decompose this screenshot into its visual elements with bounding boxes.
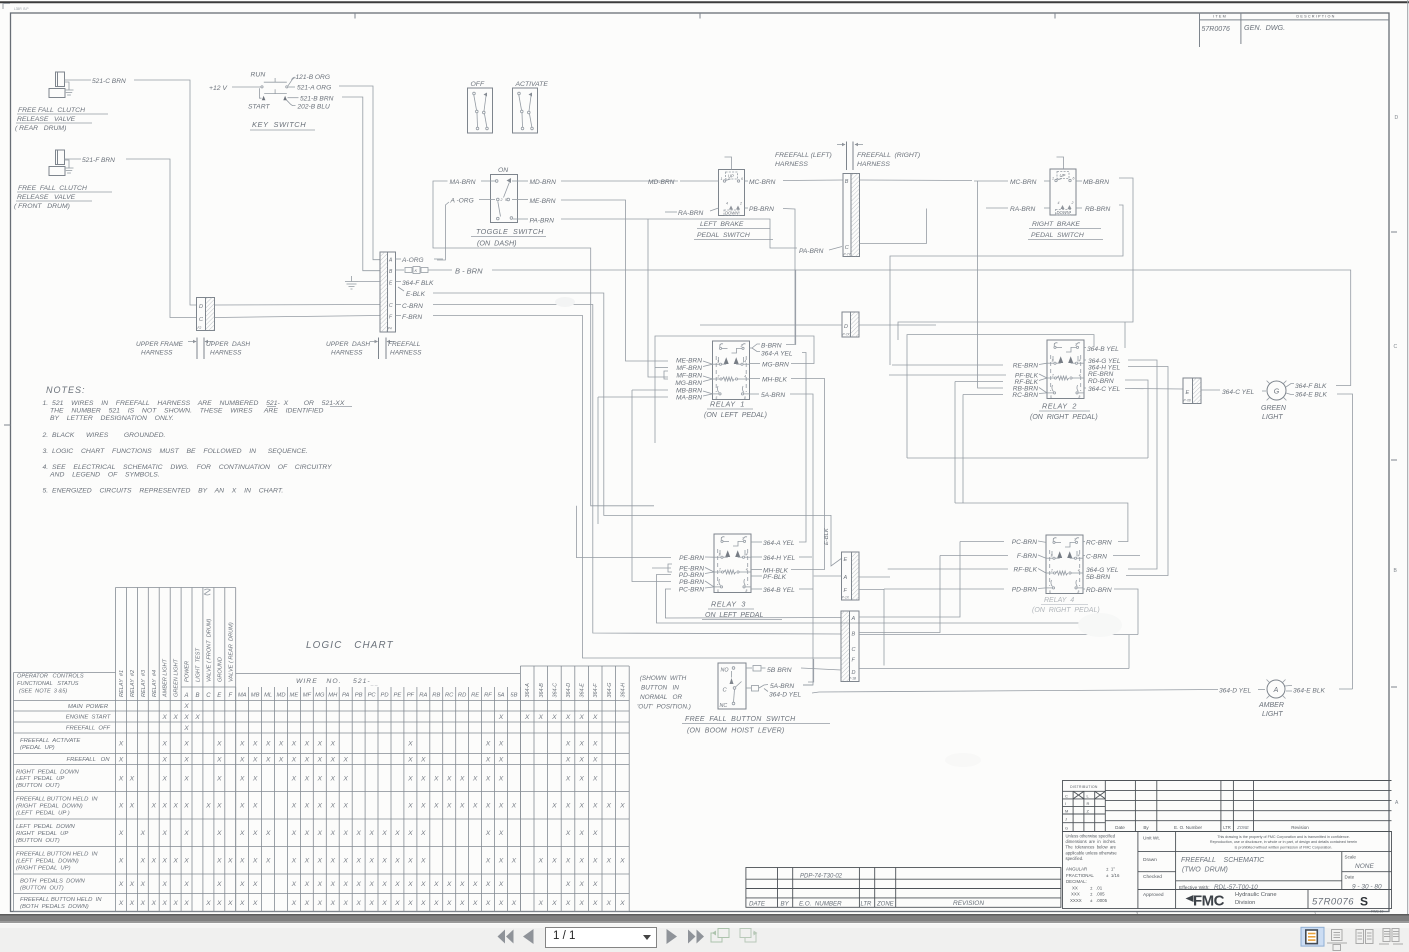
svg-text:X: X — [183, 775, 189, 782]
svg-text:X: X — [446, 881, 452, 888]
svg-text:3: 3 — [719, 553, 721, 557]
svg-text:ZONE: ZONE — [1236, 825, 1249, 830]
svg-text:5A: 5A — [497, 693, 504, 699]
svg-text:RIGHT PEDAL DOWN: RIGHT PEDAL DOWN — [16, 769, 79, 775]
svg-text:X: X — [239, 803, 245, 810]
svg-text:A -ORG: A -ORG — [450, 198, 474, 205]
svg-text:(ON RIGHT PEDAL): (ON RIGHT PEDAL) — [1030, 414, 1098, 421]
svg-text:X: X — [381, 881, 387, 888]
svg-text:3: 3 — [742, 537, 744, 541]
svg-text:LEFT PEDAL UP: LEFT PEDAL UP — [16, 776, 64, 782]
svg-text:X: X — [485, 741, 491, 748]
svg-text:NOTES:: NOTES: — [46, 385, 86, 395]
svg-text:X: X — [342, 756, 348, 763]
svg-text:LTR: LTR — [1223, 825, 1231, 830]
svg-text:(BUTTON OUT): (BUTTON OUT) — [16, 838, 60, 844]
svg-text:AND LEGEND OF SYMBOLS.: AND LEGEND OF SYMBOLS. — [49, 472, 160, 479]
svg-text:X: X — [368, 900, 374, 907]
svg-text:X: X — [252, 756, 258, 763]
svg-text:LIGHT TEST: LIGHT TEST — [196, 648, 202, 682]
svg-text:X: X — [578, 900, 584, 907]
svg-text:X: X — [161, 881, 167, 888]
svg-text:P4: P4 — [388, 327, 392, 331]
svg-text:X: X — [317, 741, 323, 748]
svg-text:X: X — [151, 803, 157, 810]
svg-text:X: X — [330, 900, 336, 907]
svg-text:5B BRN: 5B BRN — [767, 667, 792, 674]
svg-text:RF: RF — [484, 693, 492, 699]
svg-text:D: D — [199, 304, 203, 310]
svg-text:X: X — [342, 900, 348, 907]
svg-text:C-BRN: C-BRN — [402, 303, 423, 310]
svg-text:RA-BRN: RA-BRN — [1010, 206, 1036, 213]
svg-text:X: X — [592, 830, 598, 837]
svg-text:X: X — [304, 741, 310, 748]
svg-text:X: X — [511, 803, 517, 810]
svg-text:X: X — [151, 858, 157, 865]
svg-text:Division: Division — [1235, 900, 1255, 906]
svg-text:X: X — [183, 881, 189, 888]
svg-text:J: J — [1065, 817, 1067, 822]
svg-text:4: 4 — [1078, 569, 1080, 573]
svg-text:LIGHT: LIGHT — [1262, 711, 1283, 718]
svg-text:X: X — [129, 881, 135, 888]
svg-text:X: X — [472, 803, 478, 810]
svg-text:364-A YEL: 364-A YEL — [761, 351, 793, 358]
svg-text:DOWN: DOWN — [725, 211, 739, 216]
svg-text:X: X — [433, 803, 439, 810]
svg-text:F: F — [228, 693, 232, 699]
svg-text:X: X — [394, 830, 400, 837]
svg-text:MG-BRN: MG-BRN — [675, 380, 702, 387]
svg-text:8: 8 — [746, 589, 748, 593]
svg-text:X: X — [216, 900, 222, 907]
svg-text:364-A: 364-A — [525, 683, 531, 698]
svg-text:is prohibited without written: is prohibited without written permission… — [1235, 845, 1333, 849]
svg-text:MH-BLK: MH-BLK — [762, 377, 788, 384]
svg-text:RUN: RUN — [251, 72, 266, 79]
svg-text:X: X — [129, 803, 135, 810]
svg-text:X: X — [183, 803, 189, 810]
svg-text:C: C — [1394, 344, 1398, 350]
svg-text:± .005: ± .005 — [1090, 892, 1105, 897]
svg-text:RELAY #4: RELAY #4 — [152, 670, 158, 697]
svg-text:X: X — [420, 775, 426, 782]
svg-text:364-A YEL: 364-A YEL — [763, 540, 795, 547]
svg-text:2: 2 — [739, 202, 742, 206]
svg-text:3: 3 — [717, 360, 719, 364]
svg-text:X: X — [592, 803, 598, 810]
svg-text:57R0076: 57R0076 — [1202, 26, 1231, 33]
svg-text:X: X — [239, 775, 245, 782]
svg-text:applicable unless otherwise: applicable unless otherwise — [1066, 850, 1118, 855]
svg-text:A: A — [388, 258, 393, 264]
svg-text:RELAY 4: RELAY 4 — [1044, 597, 1074, 604]
svg-text:X: X — [183, 703, 189, 710]
svg-text:X: X — [172, 803, 178, 810]
svg-text:X: X — [407, 741, 413, 748]
svg-text:ON: ON — [498, 167, 508, 174]
svg-text:X: X — [216, 741, 222, 748]
svg-text:X: X — [459, 881, 465, 888]
svg-text:F-BRN: F-BRN — [1017, 553, 1037, 560]
svg-text:X: X — [606, 900, 612, 907]
svg-text:X: X — [498, 714, 504, 721]
svg-text:( FRONT DRUM): ( FRONT DRUM) — [14, 203, 70, 210]
svg-text:X: X — [592, 741, 598, 748]
svg-text:X: X — [252, 775, 258, 782]
svg-text:RELAY #1: RELAY #1 — [119, 670, 125, 697]
svg-text:X: X — [485, 900, 491, 907]
svg-text:PF-BLK: PF-BLK — [763, 574, 787, 581]
svg-text:X: X — [342, 858, 348, 865]
svg-text:M: M — [1065, 808, 1068, 813]
svg-text:(ON RIGHT PEDAL): (ON RIGHT PEDAL) — [1032, 607, 1100, 614]
svg-text:2: 2 — [500, 198, 503, 202]
svg-text:MA: MA — [238, 693, 247, 699]
svg-text:LOGIC CHART: LOGIC CHART — [306, 640, 394, 651]
svg-text:X: X — [565, 775, 571, 782]
svg-text:5: 5 — [1050, 395, 1052, 399]
svg-text:C: C — [389, 303, 393, 309]
svg-text:Revision: Revision — [1291, 825, 1309, 830]
svg-text:X: X — [304, 803, 310, 810]
svg-text:FREE FALL BUTTON SWITCH: FREE FALL BUTTON SWITCH — [685, 716, 796, 723]
svg-text:AMBER: AMBER — [1258, 702, 1284, 709]
svg-text:4: 4 — [726, 202, 728, 206]
svg-text:RB-BRN: RB-BRN — [1085, 206, 1111, 213]
svg-text:X: X — [140, 900, 146, 907]
svg-text:XX: XX — [1072, 886, 1078, 891]
svg-text:X: X — [420, 858, 426, 865]
svg-text:X: X — [592, 714, 598, 721]
svg-text:FREEFALL BUTTON HELD IN: FREEFALL BUTTON HELD IN — [16, 797, 98, 803]
svg-text:X: X — [407, 830, 413, 837]
svg-text:MA-BRN: MA-BRN — [676, 395, 702, 402]
svg-text:5A-BRN: 5A-BRN — [770, 683, 794, 690]
svg-text:± .01: ± .01 — [1090, 886, 1103, 891]
svg-text:X: X — [485, 756, 491, 763]
svg-text:FMC: FMC — [1193, 893, 1225, 910]
svg-text:X: X — [291, 741, 297, 748]
svg-text:(LEFT PEDAL DOWN): (LEFT PEDAL DOWN) — [16, 859, 79, 865]
svg-text:HARNESS: HARNESS — [775, 161, 808, 168]
svg-text:RE-BRN: RE-BRN — [1088, 371, 1114, 378]
svg-text:PD-BRN: PD-BRN — [1012, 587, 1038, 594]
svg-text:X: X — [140, 858, 146, 865]
svg-text:X: X — [216, 858, 222, 865]
svg-text:X: X — [140, 881, 146, 888]
svg-text:5B: 5B — [510, 693, 517, 699]
svg-text:MH: MH — [328, 693, 338, 699]
svg-text:X: X — [183, 714, 189, 721]
svg-text:RDL-57-T00-10: RDL-57-T00-10 — [1214, 884, 1258, 891]
svg-text:364-B YEL: 364-B YEL — [1087, 346, 1119, 353]
svg-text:X: X — [291, 775, 297, 782]
svg-text:X: X — [205, 803, 211, 810]
svg-text:OPERATOR CONTROLS: OPERATOR CONTROLS — [17, 674, 84, 680]
svg-text:NO: NO — [721, 668, 729, 674]
svg-text:X: X — [342, 803, 348, 810]
svg-text:X: X — [420, 830, 426, 837]
svg-text:1: 1 — [719, 344, 721, 348]
svg-text:RIGHT BRAKE: RIGHT BRAKE — [1032, 221, 1080, 228]
svg-text:This drawing is the property o: This drawing is the property of FMC Corp… — [1217, 835, 1350, 839]
svg-text:FRACTIONAL: FRACTIONAL — [1066, 873, 1094, 878]
svg-text:X: X — [472, 775, 478, 782]
svg-text:X: X — [472, 881, 478, 888]
svg-text:X: X — [252, 741, 258, 748]
svg-text:5B-BRN: 5B-BRN — [1086, 574, 1110, 581]
svg-text:UP: UP — [728, 174, 734, 179]
svg-text:LEFT PEDAL DOWN: LEFT PEDAL DOWN — [16, 824, 76, 830]
svg-text:X: X — [183, 741, 189, 748]
svg-text:X: X — [578, 803, 584, 810]
svg-text:_ _: _ _ — [370, 681, 378, 687]
svg-text:PA-BRN: PA-BRN — [530, 218, 555, 225]
svg-text:X: X — [291, 756, 297, 763]
svg-text:3: 3 — [1052, 359, 1054, 363]
svg-text:RE: RE — [471, 693, 479, 699]
svg-text:4: 4 — [746, 553, 748, 557]
svg-text:LIGHT: LIGHT — [1262, 414, 1283, 421]
svg-text:± 1°: ± 1° — [1106, 867, 1115, 872]
svg-text:ME-BRN: ME-BRN — [676, 358, 702, 365]
svg-text:X: X — [291, 900, 297, 907]
svg-text:X: X — [216, 881, 222, 888]
svg-text:X: X — [592, 881, 598, 888]
svg-text:4: 4 — [744, 360, 746, 364]
svg-text:X: X — [565, 741, 571, 748]
svg-text:C: C — [206, 693, 211, 699]
svg-text:FREEFALL: FREEFALL — [388, 341, 421, 348]
svg-text:5: 5 — [1049, 590, 1051, 594]
svg-text:A: A — [843, 575, 848, 581]
svg-text:X: X — [407, 881, 413, 888]
svg-text:B: B — [845, 179, 849, 185]
svg-text:X: X — [129, 775, 135, 782]
svg-text:X: X — [342, 830, 348, 837]
svg-text:FREEFALL ON: FREEFALL ON — [67, 757, 111, 763]
svg-text:364-D YEL: 364-D YEL — [1219, 688, 1251, 695]
svg-text:X: X — [578, 881, 584, 888]
svg-text:X: X — [498, 858, 504, 865]
svg-text:X: X — [407, 775, 413, 782]
svg-text:HARNESS: HARNESS — [390, 350, 422, 357]
svg-text:X: X — [485, 881, 491, 888]
svg-text:X: X — [619, 900, 625, 907]
svg-text:± 1/16: ± 1/16 — [1106, 873, 1120, 878]
svg-text:B: B — [852, 632, 856, 638]
svg-text:NC: NC — [720, 703, 728, 709]
svg-text:X: X — [118, 858, 124, 865]
svg-text:R: R — [1087, 801, 1090, 806]
svg-text:MAIN POWER: MAIN POWER — [68, 704, 109, 710]
svg-text:X: X — [118, 900, 124, 907]
svg-text:X: X — [381, 858, 387, 865]
svg-text:B-BRN: B-BRN — [761, 343, 782, 350]
svg-text:X: X — [578, 714, 584, 721]
svg-text:MD: MD — [276, 693, 285, 699]
svg-text:X: X — [140, 830, 146, 837]
svg-text:DOWN: DOWN — [1057, 210, 1071, 215]
svg-text:GREEN LIGHT: GREEN LIGHT — [174, 658, 180, 697]
svg-text:X: X — [183, 725, 189, 732]
svg-text:Unless otherwise specified: Unless otherwise specified — [1066, 834, 1116, 839]
svg-text:D: D — [844, 324, 848, 330]
svg-text:X: X — [239, 756, 245, 763]
svg-text:X: X — [551, 900, 557, 907]
svg-text:364-D: 364-D — [566, 683, 572, 698]
svg-text:X: X — [407, 803, 413, 810]
svg-text:X: X — [407, 900, 413, 907]
svg-text:PB-BRN: PB-BRN — [679, 579, 704, 586]
svg-text:RELAY 3: RELAY 3 — [711, 600, 746, 609]
svg-text:X: X — [291, 830, 297, 837]
svg-text:G: G — [1274, 389, 1280, 396]
svg-text:2: 2 — [1051, 374, 1054, 378]
svg-text:XXXX: XXXX — [1070, 898, 1082, 903]
svg-text:A: A — [183, 693, 188, 699]
svg-text:2. BLACK WIRES GROUNDED.: 2. BLACK WIRES GROUNDED. — [42, 432, 166, 439]
svg-text:4: 4 — [744, 375, 746, 379]
svg-text:NORMAL OR: NORMAL OR — [640, 694, 683, 701]
svg-text:FREEFALL OFF: FREEFALL OFF — [66, 726, 111, 732]
svg-text:5A-BRN: 5A-BRN — [761, 392, 785, 399]
svg-text:X: X — [420, 900, 426, 907]
svg-text:X: X — [239, 741, 245, 748]
svg-text:4. SEE ELECTRICAL SCHEMATIC: 4. SEE ELECTRICAL SCHEMATIC DWG. FOR CON… — [43, 464, 333, 471]
svg-text:X: X — [592, 900, 598, 907]
svg-text:X: X — [459, 775, 465, 782]
svg-text:PC-BRN: PC-BRN — [679, 587, 705, 594]
svg-text:X: X — [538, 714, 544, 721]
svg-text:RD-BRN: RD-BRN — [1086, 587, 1112, 594]
svg-text:X: X — [578, 858, 584, 865]
svg-text:X: X — [578, 830, 584, 837]
svg-text:5: 5 — [505, 198, 507, 202]
svg-text:X: X — [239, 900, 245, 907]
svg-text:X: X — [498, 775, 504, 782]
svg-text:P-1X: P-1X — [842, 596, 850, 600]
svg-text:X: X — [118, 756, 124, 763]
svg-text:X: X — [342, 881, 348, 888]
svg-text:Effective With:: Effective With: — [1179, 885, 1210, 891]
svg-text:X: X — [355, 900, 361, 907]
svg-text:X: X — [161, 741, 167, 748]
svg-text:RE-BRN: RE-BRN — [1013, 363, 1039, 370]
svg-text:X: X — [252, 900, 258, 907]
svg-text:364-H YEL: 364-H YEL — [763, 555, 795, 562]
svg-text:1: 1 — [721, 537, 723, 541]
svg-text:E-BLK: E-BLK — [406, 291, 426, 298]
svg-text:D: D — [1395, 115, 1399, 121]
svg-text:E: E — [844, 557, 848, 563]
svg-text:MF: MF — [303, 693, 312, 699]
svg-text:X: X — [433, 881, 439, 888]
svg-text:X: X — [216, 775, 222, 782]
svg-text:X: X — [330, 775, 336, 782]
svg-text:FREE FALL CLUTCH: FREE FALL CLUTCH — [18, 185, 87, 192]
svg-text:Checked: Checked — [1143, 874, 1162, 880]
svg-text:X: X — [498, 741, 504, 748]
svg-text:LTR: LTR — [861, 902, 873, 908]
svg-text:364-B: 364-B — [539, 683, 545, 698]
svg-text:RC: RC — [445, 693, 454, 699]
svg-text:P-7Y: P-7Y — [844, 253, 852, 257]
svg-text:57R0076: 57R0076 — [1312, 897, 1354, 908]
svg-text:B - BRN: B - BRN — [455, 267, 483, 276]
svg-text:G: G — [1065, 825, 1068, 830]
svg-text:ANGULAR: ANGULAR — [1066, 867, 1087, 872]
svg-text:3: 3 — [741, 344, 743, 348]
svg-text:X: X — [420, 881, 426, 888]
svg-text:X: X — [278, 756, 284, 763]
svg-text:Unit Wt.: Unit Wt. — [1143, 836, 1160, 842]
svg-text:X: X — [161, 900, 167, 907]
svg-text:(RIGHT PEDAL DOWN): (RIGHT PEDAL DOWN) — [16, 804, 83, 810]
svg-text:PC-BRN: PC-BRN — [1012, 539, 1038, 546]
svg-text:GROUND: GROUND — [217, 657, 223, 682]
svg-text:X: X — [498, 756, 504, 763]
svg-text:521-B BRN: 521-B BRN — [300, 96, 334, 103]
svg-text:(BUTTON OUT): (BUTTON OUT) — [16, 783, 60, 789]
svg-text:X: X — [118, 803, 124, 810]
svg-text:FREEFALL (RIGHT): FREEFALL (RIGHT) — [857, 152, 920, 159]
svg-text:X: X — [485, 830, 491, 837]
svg-text:C-BRN: C-BRN — [1086, 554, 1107, 561]
svg-text:X: X — [291, 803, 297, 810]
svg-text:X: X — [216, 830, 222, 837]
svg-text:specified.: specified. — [1066, 856, 1084, 861]
svg-text:X: X — [524, 714, 530, 721]
svg-text:4: 4 — [1079, 374, 1081, 378]
svg-text:MD-BRN: MD-BRN — [648, 179, 675, 186]
svg-text:364-C YEL: 364-C YEL — [1088, 386, 1120, 393]
svg-text:VALVE ( FRONT DRUM): VALVE ( FRONT DRUM) — [206, 618, 212, 682]
svg-text:X: X — [342, 775, 348, 782]
svg-text:REVISION: REVISION — [953, 900, 984, 907]
svg-text:X: X — [459, 900, 465, 907]
svg-text:(ON DASH): (ON DASH) — [477, 239, 517, 248]
svg-text:(LEFT PEDAL UP ): (LEFT PEDAL UP ) — [16, 810, 70, 816]
svg-text:RELEASE VALVE: RELEASE VALVE — [17, 194, 76, 201]
svg-text:S: S — [1360, 895, 1368, 909]
svg-text:X: X — [317, 830, 323, 837]
svg-text:2: 2 — [1050, 569, 1053, 573]
svg-text:X: X — [446, 900, 452, 907]
svg-text:MC-BRN: MC-BRN — [749, 179, 776, 186]
svg-text:X: X — [183, 858, 189, 865]
svg-text:X: X — [161, 775, 167, 782]
svg-text:X: X — [606, 858, 612, 865]
svg-text:RB: RB — [432, 693, 440, 699]
svg-text:X: X — [265, 830, 271, 837]
svg-text:521-A ORG: 521-A ORG — [297, 85, 331, 92]
svg-text:RA-BRN: RA-BRN — [678, 210, 704, 217]
svg-text:X: X — [368, 881, 374, 888]
svg-text:± .0005: ± .0005 — [1090, 898, 1108, 903]
svg-text:X: X — [368, 858, 374, 865]
svg-text:FREEFALL (LEFT): FREEFALL (LEFT) — [775, 152, 832, 159]
svg-text:K: K — [415, 268, 418, 273]
svg-text:ACTIVATE: ACTIVATE — [515, 81, 549, 88]
svg-text:6: 6 — [1073, 177, 1075, 181]
svg-text:X: X — [205, 900, 211, 907]
svg-text:364-E BLK: 364-E BLK — [1295, 392, 1327, 399]
svg-text:P-7B: P-7B — [1184, 399, 1192, 403]
svg-text:X: X — [118, 741, 124, 748]
